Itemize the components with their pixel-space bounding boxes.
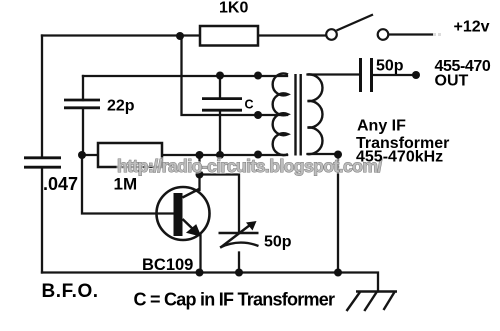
svg-text:C: C	[245, 98, 254, 112]
svg-text:OUT: OUT	[435, 73, 469, 90]
svg-text:BC109: BC109	[142, 256, 193, 274]
svg-text:455-470kHz: 455-470kHz	[356, 149, 443, 166]
svg-text:B.F.O.: B.F.O.	[42, 281, 99, 302]
svg-text:C = Cap in IF Transformer: C = Cap in IF Transformer	[134, 290, 336, 310]
svg-text:+12v: +12v	[454, 18, 490, 35]
svg-text:50p: 50p	[376, 58, 404, 75]
svg-text:Any IF: Any IF	[357, 118, 406, 135]
svg-text:.047: .047	[43, 174, 78, 194]
svg-text:22p: 22p	[107, 98, 135, 115]
svg-text:http://radio-circuits.blogspot: http://radio-circuits.blogspot.com/	[117, 156, 382, 176]
svg-text:1M: 1M	[114, 174, 138, 193]
svg-text:1K0: 1K0	[219, 0, 248, 16]
svg-text:50p: 50p	[264, 234, 292, 251]
